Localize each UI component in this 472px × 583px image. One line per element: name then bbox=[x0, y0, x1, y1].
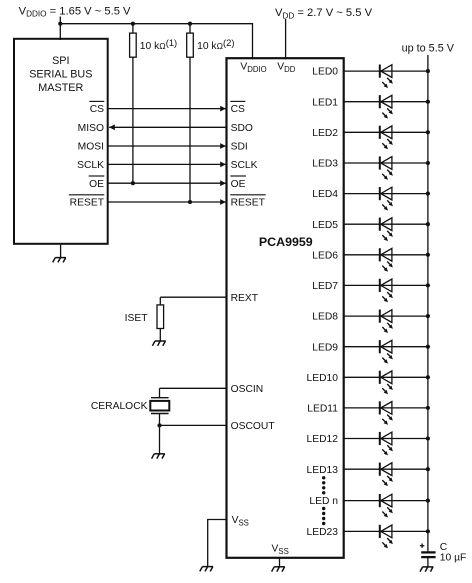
LED diode on LED10 bbox=[380, 371, 393, 395]
LED diode on LED1 bbox=[380, 95, 393, 119]
svg-text:LED8: LED8 bbox=[312, 312, 338, 323]
wire resonator bottom to OSCOUT and ground bbox=[159, 414, 161, 454]
svg-text:LED7: LED7 bbox=[312, 281, 338, 292]
wire VDD to U1 VDD pin bbox=[285, 19, 287, 59]
svg-text:ISET: ISET bbox=[125, 313, 149, 324]
svg-text:LED3: LED3 bbox=[312, 159, 338, 170]
wire LED8 output net bbox=[344, 315, 428, 317]
LED diode on LED12 bbox=[380, 432, 393, 456]
wire LED1 output net bbox=[344, 101, 428, 103]
junction LED6 / supply rail bbox=[426, 253, 430, 257]
svg-text:LED9: LED9 bbox=[312, 342, 338, 353]
junction LED3 / supply rail bbox=[426, 161, 430, 165]
svg-text:REXT: REXT bbox=[231, 293, 259, 304]
wire LED3 output net bbox=[344, 162, 428, 164]
wire OSCOUT net bbox=[160, 424, 227, 426]
capacitor C 10 uF (electrolytic, + top) bbox=[421, 552, 435, 557]
ground below CERALOCK bbox=[152, 454, 165, 459]
wire LED10 output net bbox=[344, 376, 428, 378]
svg-text:OE: OE bbox=[89, 179, 104, 190]
junction VDDIO rail / R1 bbox=[131, 22, 135, 26]
junction LED9 / supply rail bbox=[426, 345, 430, 349]
junction VDDIO rail / R2 bbox=[188, 22, 192, 26]
wire VDDIO rail drop to U1 VDDIO pin bbox=[252, 23, 254, 59]
wire SCLK net bbox=[108, 163, 226, 165]
junction LED11 / supply rail bbox=[426, 406, 430, 410]
wire VDDIO label stem into SPI box bbox=[59, 17, 61, 41]
svg-text:LED0: LED0 bbox=[312, 67, 338, 78]
svg-text:up to 5.5 V: up to 5.5 V bbox=[402, 43, 455, 55]
svg-text:LED10: LED10 bbox=[307, 373, 339, 384]
svg-text:RESET: RESET bbox=[70, 198, 105, 209]
LED diode on LED8 bbox=[380, 310, 393, 334]
svg-text:RESET: RESET bbox=[231, 198, 266, 209]
LED diode on LED13 bbox=[380, 463, 393, 487]
LED diode on LED0 bbox=[380, 65, 393, 89]
junction LED4 / supply rail bbox=[426, 192, 430, 196]
wire VSS net (left) bbox=[208, 520, 227, 567]
crystal resonator CERALOCK bbox=[150, 398, 169, 414]
svg-text:LED12: LED12 bbox=[307, 434, 339, 445]
junction LED10 / supply rail bbox=[426, 375, 430, 379]
ellipsis dots between LED13 and LED n bbox=[322, 476, 325, 494]
wire LED7 output net bbox=[344, 284, 428, 286]
ellipsis dots between LED n and LED23 bbox=[322, 507, 325, 525]
wire OE net bbox=[108, 182, 226, 184]
wire LED23 output net bbox=[344, 530, 428, 532]
svg-text:10 µF: 10 µF bbox=[440, 553, 467, 564]
junction LED1 / supply rail bbox=[426, 100, 430, 104]
ground for VSS (bottom) bbox=[272, 567, 285, 572]
label SPI SERIAL BUS MASTER bbox=[29, 55, 92, 94]
junction LED0 / supply rail bbox=[426, 69, 430, 73]
resistor R2 10 kOhm pull-up on RESET bbox=[189, 24, 191, 33]
svg-text:LED11: LED11 bbox=[307, 404, 338, 415]
wire LED6 output net bbox=[344, 254, 428, 256]
wire LED2 output net bbox=[344, 131, 428, 133]
wire LED4 output net bbox=[344, 193, 428, 195]
svg-text:MASTER: MASTER bbox=[38, 82, 83, 94]
ground for VSS (left) bbox=[200, 567, 213, 572]
LED diode on LED11 bbox=[380, 401, 393, 425]
svg-text:MOSI: MOSI bbox=[78, 142, 104, 153]
svg-text:LED5: LED5 bbox=[312, 220, 338, 231]
svg-text:SDO: SDO bbox=[231, 123, 253, 134]
wire LED13 output net bbox=[344, 468, 428, 470]
svg-text:OE: OE bbox=[231, 179, 246, 190]
junction LED7 / supply rail bbox=[426, 283, 430, 287]
svg-text:LED4: LED4 bbox=[312, 189, 338, 200]
ground below capacitor bbox=[420, 567, 433, 572]
wire RESET net bbox=[108, 201, 226, 203]
LED diode on LED3 bbox=[380, 156, 393, 180]
svg-text:SCLK: SCLK bbox=[231, 160, 258, 171]
LED diode on LED4 bbox=[380, 187, 393, 211]
LED diode on LED7 bbox=[380, 279, 393, 303]
junction VDDIO rail / SPI stem bbox=[58, 22, 62, 26]
svg-text:LED13: LED13 bbox=[307, 465, 339, 476]
LED diode on LED9 bbox=[380, 340, 393, 364]
svg-text:LED6: LED6 bbox=[312, 250, 338, 261]
wire LED5 output net bbox=[344, 223, 428, 225]
junction LED8 / supply rail bbox=[426, 314, 430, 318]
wire VDDIO rail bbox=[60, 23, 252, 25]
LED diode on LED23 bbox=[380, 525, 393, 549]
svg-text:SCLK: SCLK bbox=[77, 160, 104, 171]
ground below SPI master bbox=[53, 258, 66, 263]
svg-text:LED n: LED n bbox=[309, 496, 338, 507]
wire LED9 output net bbox=[344, 346, 428, 348]
svg-text:PCA9959: PCA9959 bbox=[259, 235, 313, 249]
svg-text:C: C bbox=[440, 542, 448, 553]
wire LED11 output net bbox=[344, 407, 428, 409]
wire CS net (SPI to U1) bbox=[108, 108, 226, 110]
junction LED23 / supply rail bbox=[426, 529, 430, 533]
svg-text:SERIAL BUS: SERIAL BUS bbox=[29, 69, 92, 81]
wire LED supply rail (up to 5.5 V) bbox=[427, 55, 429, 552]
wire LED12 output net bbox=[344, 438, 428, 440]
junction LED2 / supply rail bbox=[426, 130, 430, 134]
op IC U1 PCA9959 LED driver block bbox=[227, 58, 344, 558]
wire REXT net bbox=[160, 296, 226, 298]
wire capacitor to ground bbox=[427, 557, 429, 567]
wire LED0 output net bbox=[344, 70, 428, 72]
wire OSCIN down to resonator bbox=[159, 388, 161, 397]
ground below ISET bbox=[152, 341, 165, 346]
svg-text:MISO: MISO bbox=[78, 123, 104, 134]
svg-text:CS: CS bbox=[231, 104, 245, 115]
svg-text:LED23: LED23 bbox=[307, 527, 339, 538]
wire MOSI/SDI net bbox=[108, 145, 226, 147]
svg-text:LED2: LED2 bbox=[312, 128, 338, 139]
resistor R1 10 kOhm pull-up on OE bbox=[132, 24, 134, 33]
wire VSS stem (bottom) bbox=[279, 558, 281, 567]
wire SDO/MISO net (U1 to SPI) bbox=[109, 126, 226, 128]
LED diode on LED2 bbox=[380, 126, 393, 150]
svg-text:SDI: SDI bbox=[231, 142, 248, 153]
svg-text:LED1: LED1 bbox=[312, 97, 338, 108]
junction LED5 / supply rail bbox=[426, 222, 430, 226]
wire LED n output net bbox=[344, 500, 428, 502]
svg-text:OSCOUT: OSCOUT bbox=[231, 421, 276, 432]
svg-text:OSCIN: OSCIN bbox=[231, 384, 264, 395]
junction LED n / supply rail bbox=[426, 499, 430, 503]
LED diode on LED5 bbox=[380, 218, 393, 242]
LED diode on LED n bbox=[380, 494, 393, 518]
junction LED12 / supply rail bbox=[426, 436, 430, 440]
svg-text:SPI: SPI bbox=[52, 55, 69, 67]
svg-text:CS: CS bbox=[90, 104, 104, 115]
junction R1 / OE net bbox=[131, 181, 135, 185]
junction R2 / RESET net bbox=[188, 200, 192, 204]
resistor ISET (current-set) bbox=[159, 297, 161, 305]
svg-text:CERALOCK: CERALOCK bbox=[91, 401, 148, 412]
junction OSCOUT / resonator / ground bbox=[157, 423, 161, 427]
wire SPI master ground stem bbox=[60, 245, 62, 258]
capacitor + polarity mark bbox=[420, 544, 424, 548]
junction LED13 / supply rail bbox=[426, 467, 430, 471]
LED diode on LED6 bbox=[380, 248, 393, 272]
SPI serial bus master block bbox=[14, 39, 108, 244]
wire OSCIN net bbox=[160, 387, 227, 389]
